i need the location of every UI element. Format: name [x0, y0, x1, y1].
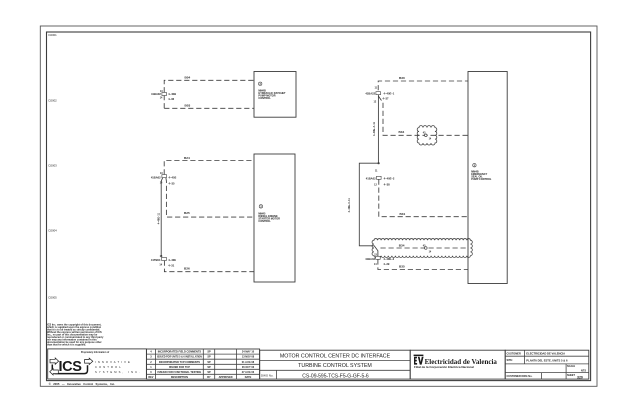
svg-text:SHEET: SHEET	[567, 374, 576, 377]
svg-text:06 OCT 06: 06 OCT 06	[242, 366, 255, 369]
svg-text:B04: B04	[185, 76, 191, 80]
svg-text:B26: B26	[184, 267, 190, 271]
customer info table	[505, 350, 589, 380]
svg-text:4–40E–11: 4–40E–11	[158, 212, 161, 224]
svg-text:D2005: D2005	[49, 296, 58, 300]
inner border frame	[47, 32, 591, 381]
svg-text:ELECTRICIDAD DE VALENCIA: ELECTRICIDAD DE VALENCIA	[526, 352, 565, 356]
company name	[95, 360, 142, 374]
svg-text:DATE: DATE	[245, 376, 252, 379]
svg-text:DWG No.: DWG No.	[261, 374, 274, 378]
svg-text:ISSUED FOR FUNCTIONAL TESTI: ISSUED FOR FUNCTIONAL TESTING	[158, 371, 202, 374]
svg-text:41BA03: 41BA03	[365, 257, 375, 261]
svg-text:41BA22: 41BA22	[365, 92, 375, 96]
wire B35 (dashed)	[378, 259, 468, 269]
svg-text:INCORPORATED FIELD COMMENTS: INCORPORATED FIELD COMMENTS	[158, 351, 202, 354]
svg-text:BY: BY	[207, 376, 211, 379]
svg-text:4–40S: 4–40S	[169, 175, 177, 179]
svg-text:Filial de la Corporación Eléct: Filial de la Corporación Eléctrica Nacio…	[414, 365, 474, 369]
svg-text:© 2005 — Innovative Contr: © 2005 — Innovative Control Systems, Inc…	[49, 382, 115, 386]
svg-text:B03: B03	[185, 104, 191, 108]
svg-text:13 NOV 08: 13 NOV 08	[242, 356, 255, 359]
svg-text:NTS: NTS	[581, 370, 586, 373]
svg-text:CUSTOMER DWG No.: CUSTOMER DWG No.	[507, 375, 533, 378]
svg-text:INNOVATIVE: INNOVATIVE	[95, 360, 132, 364]
svg-text:PUMP CONTROL: PUMP CONTROL	[471, 178, 492, 181]
contact 43/14 on wire B34	[423, 132, 432, 141]
svg-text:ISSUED FOR TCP: ISSUED FOR TCP	[169, 366, 190, 369]
terminal 41BA02 (circuit 1)	[151, 90, 176, 101]
svg-text:41TB04: 41TB04	[151, 258, 161, 262]
svg-text:B30: B30	[399, 76, 405, 80]
svg-text:01 AUG 08: 01 AUG 08	[242, 361, 255, 364]
svg-text:41BA02: 41BA02	[151, 92, 161, 96]
svg-text:REV: REV	[148, 376, 153, 379]
svg-text:D2004: D2004	[49, 229, 58, 233]
svg-text:Proprietary Information of: Proprietary Information of	[81, 351, 110, 354]
proprietary notice paragraph	[47, 324, 104, 347]
svg-text:SP: SP	[207, 366, 211, 369]
svg-text:SP: SP	[207, 356, 211, 359]
svg-text:B24: B24	[184, 156, 190, 160]
svg-text:than that for which it is supp: than that for which it is supplied.	[47, 344, 86, 347]
wire B34 branch (dashed from terminal to contact)	[379, 96, 469, 135]
svg-text:4–40E: 4–40E	[168, 258, 176, 262]
svg-text:4–40E–1: 4–40E–1	[384, 92, 395, 96]
svg-text:ISSUED FOR UNITS 5 & 6 INSTALL: ISSUED FOR UNITS 5 & 6 INSTALLATION	[157, 356, 202, 359]
svg-text:SP: SP	[207, 371, 211, 374]
svg-text:4–40E–3–11: 4–40E–3–11	[373, 121, 376, 136]
ICS logo box	[48, 349, 147, 379]
svg-text:D2002: D2002	[49, 99, 58, 103]
svg-text:SCALE: SCALE	[567, 365, 576, 368]
revision table	[146, 349, 259, 379]
svg-text:SITE:: SITE:	[507, 359, 514, 362]
wire B25 (dashed from terminal down then right)	[166, 178, 254, 217]
svg-text:PLANTA DEL ESTE, UNITS 5: PLANTA DEL ESTE, UNITS 5 & 6	[526, 358, 568, 362]
svg-text:CONTROL: CONTROL	[95, 365, 123, 369]
svg-text:4–36: 4–36	[168, 97, 174, 101]
box U2: diesel engine starter motor control	[254, 154, 295, 282]
drawing title box	[260, 350, 411, 379]
svg-text:CUSTOMER: CUSTOMER	[507, 352, 521, 355]
svg-text:4–40B: 4–40B	[168, 92, 176, 96]
svg-text:CONTROL: CONTROL	[258, 220, 271, 223]
svg-text:SP: SP	[207, 361, 211, 364]
svg-text:MOTOR CONTROL CENTER DC INTERF: MOTOR CONTROL CENTER DC INTERFACE	[280, 353, 391, 359]
wire B26 (dashed)	[164, 261, 254, 272]
svg-text:ICS: ICS	[59, 359, 83, 375]
terminal 41BA02 (right, pins 11/12)	[366, 169, 395, 186]
revision cloud (long, around wire B34 lower)	[372, 239, 472, 258]
outer border frame	[40, 26, 597, 386]
ICS logo arrows and loop	[52, 365, 87, 374]
wire: solid branch left/down to 41BA03, cable 4-40E-3-11	[348, 163, 378, 256]
EV monogram	[414, 355, 424, 365]
svg-text:B25: B25	[184, 211, 190, 215]
wire: solid run 41BA02 to 41TB04, cable 4-40E-11	[158, 178, 163, 257]
svg-text:CS-09-595-TCS-F5-G-GF-5-6: CS-09-595-TCS-F5-G-GF-5-6	[302, 373, 369, 379]
contact 43/14 on lower wire B34	[423, 244, 432, 253]
terminal 41BA22	[365, 87, 394, 104]
svg-text:CONTROL: CONTROL	[258, 97, 271, 100]
svg-text:SP: SP	[207, 351, 211, 354]
wire B34 lower (dashed inside cloud)	[381, 247, 469, 249]
svg-text:DESCRIPTION: DESCRIPTION	[171, 376, 188, 379]
svg-text:41BA02: 41BA02	[366, 176, 376, 180]
svg-text:4–40E–3–11: 4–40E–3–11	[348, 198, 351, 213]
svg-text:APPROVED: APPROVED	[219, 376, 233, 379]
EV logo block	[410, 350, 505, 379]
node junction at terminal 41BA02 (right)	[378, 162, 380, 164]
svg-text:4–40E–2: 4–40E–2	[384, 176, 395, 180]
box U1: hydraulic ratchet pump motor control	[254, 72, 296, 118]
svg-text:4–31: 4–31	[168, 264, 174, 268]
svg-text:24 MAY 10: 24 MAY 10	[242, 351, 255, 354]
terminal 41BA02 (circuit 2)	[151, 172, 177, 185]
svg-text:INCORPORATED TCP COMMENTS: INCORPORATED TCP COMMENTS	[159, 361, 200, 364]
svg-text:41BA02: 41BA02	[151, 175, 161, 179]
wire: solid run 41BA22 down, cable 4-40E-3-11	[373, 95, 379, 164]
revision cloud (small, around contact 43/14)	[417, 126, 437, 145]
svg-text:D2001: D2001	[49, 33, 58, 37]
svg-text:B34: B34	[399, 130, 405, 134]
svg-text:B35: B35	[399, 265, 405, 269]
terminal 41BA03	[365, 254, 395, 266]
wire B30 (dashed)	[378, 81, 468, 90]
svg-text:B34: B34	[399, 243, 405, 247]
svg-text:4–40E–3: 4–40E–3	[383, 257, 394, 261]
wire B24 (dashed)	[164, 161, 254, 175]
svg-text:D2003: D2003	[49, 164, 58, 168]
svg-text:TURBINE CONTROL SYSTEM: TURBINE CONTROL SYSTEM	[298, 363, 372, 369]
wire B04 (dashed, to box MM4B)	[164, 80, 254, 108]
box U3: emergency seal oil pump control	[468, 72, 507, 284]
svg-text:4–39: 4–39	[383, 262, 389, 266]
svg-text:27 AUG 06: 27 AUG 06	[242, 371, 255, 374]
svg-text:4–38: 4–38	[384, 182, 390, 186]
svg-text:SYSTEMS, INC.: SYSTEMS, INC.	[95, 370, 142, 374]
svg-text:4–37: 4–37	[383, 97, 389, 101]
svg-text:4–35: 4–35	[169, 181, 175, 185]
wire B03 (dashed)	[164, 107, 254, 109]
wire B31 (dashed)	[379, 180, 468, 217]
terminal 41TB04	[151, 255, 176, 268]
svg-text:320: 320	[577, 376, 583, 380]
svg-text:B31: B31	[400, 212, 406, 216]
